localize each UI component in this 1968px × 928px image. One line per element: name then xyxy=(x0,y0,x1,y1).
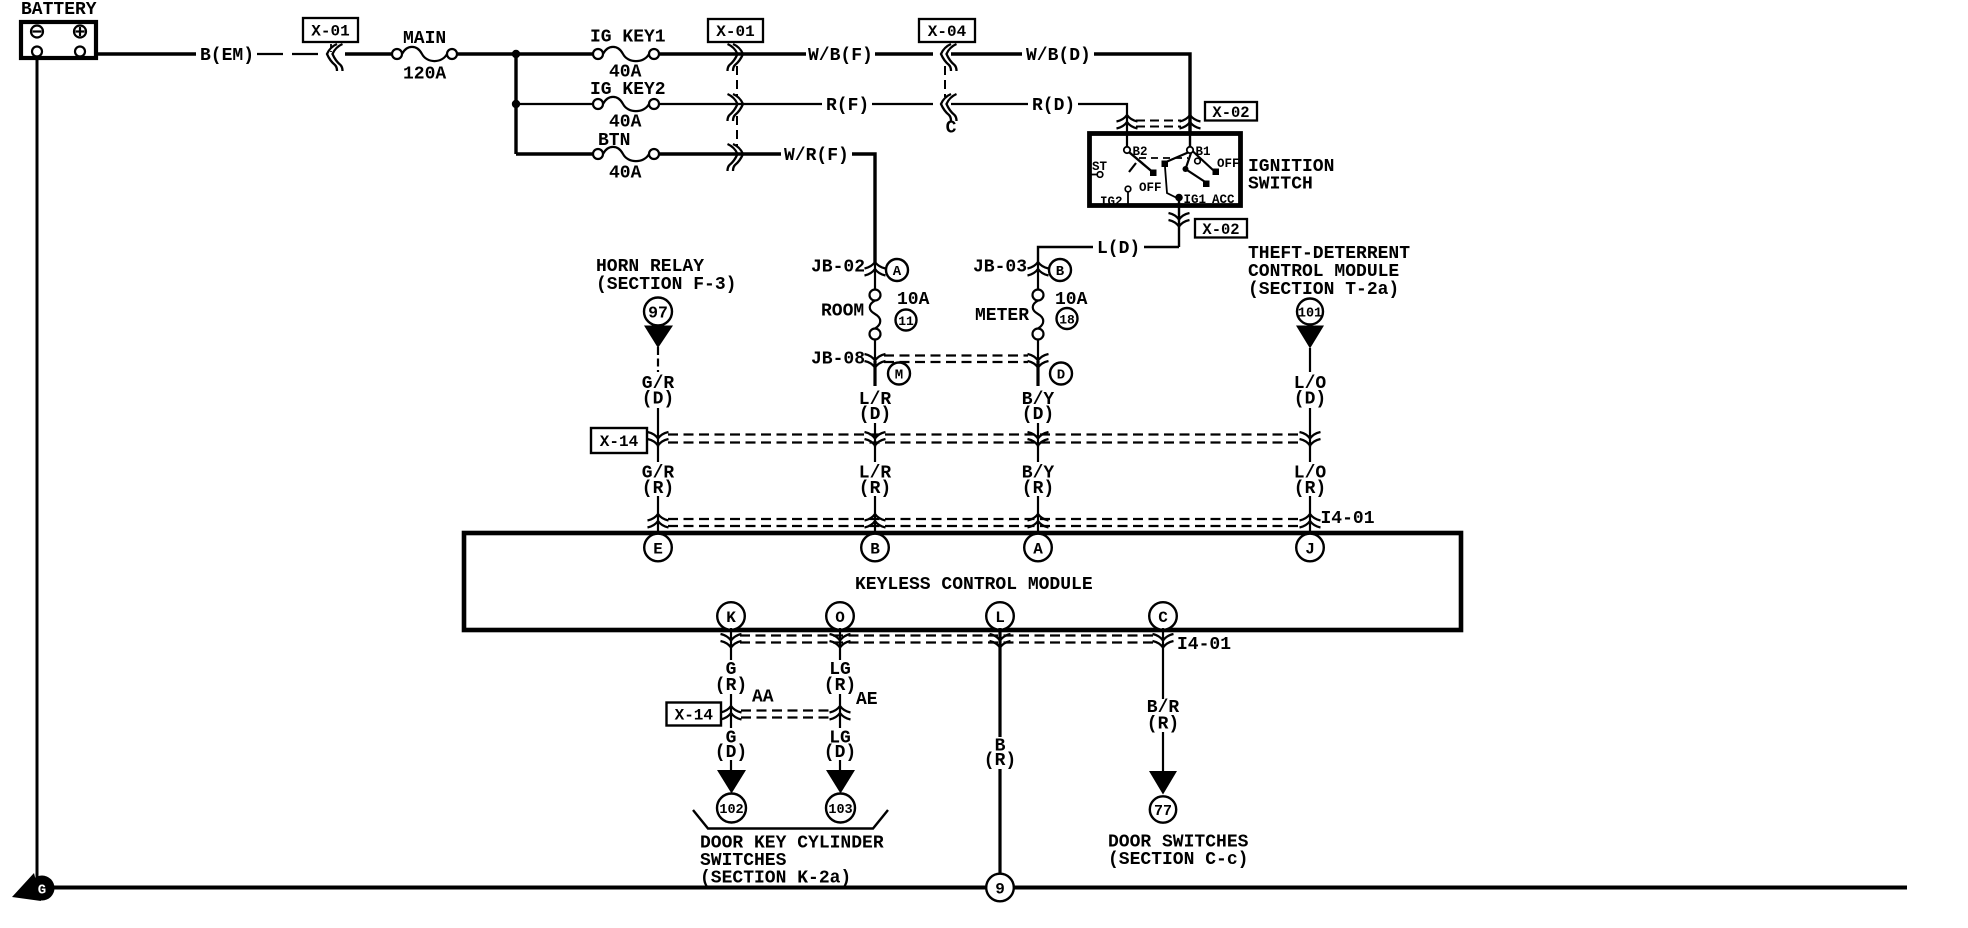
wire L/O (D) to X-14 xyxy=(1309,408,1311,447)
svg-text:X-14: X-14 xyxy=(675,707,714,725)
svg-text:(R): (R) xyxy=(984,751,1016,771)
connector X-14 xyxy=(591,428,1321,453)
svg-text:IG2: IG2 xyxy=(1100,195,1123,209)
connector X-01 (front harness) xyxy=(708,19,763,171)
wire B(EM) battery to connector xyxy=(97,52,196,55)
svg-text:X-01: X-01 xyxy=(311,23,349,41)
svg-text:(SECTION F-3): (SECTION F-3) xyxy=(596,275,736,295)
svg-text:O: O xyxy=(835,609,845,627)
door key cylinder switch reference 103 xyxy=(826,794,855,823)
svg-text:JB-03: JB-03 xyxy=(973,258,1027,278)
svg-text:W/R(F): W/R(F) xyxy=(784,146,849,166)
svg-text:KEYLESS CONTROL MODULE: KEYLESS CONTROL MODULE xyxy=(855,575,1093,595)
svg-text:THEFT-DETERRENT: THEFT-DETERRENT xyxy=(1248,244,1410,264)
svg-text:MAIN: MAIN xyxy=(403,29,446,49)
svg-text:R(D): R(D) xyxy=(1032,96,1075,116)
svg-text:X-02: X-02 xyxy=(1202,221,1239,239)
wire R(D) to ignition switch B2 xyxy=(1078,104,1127,147)
arrow to 102 xyxy=(717,770,746,794)
svg-text:(R): (R) xyxy=(1147,715,1179,735)
svg-text:IG1: IG1 xyxy=(1184,193,1207,207)
svg-text:(SECTION K-2a): (SECTION K-2a) xyxy=(700,869,851,889)
connector X-14 (lower) xyxy=(667,703,851,726)
wire G (D) down xyxy=(730,760,732,772)
wire pin C down xyxy=(1162,628,1164,699)
svg-text:(D): (D) xyxy=(642,390,674,410)
arrow to 77 xyxy=(1149,771,1177,795)
wire R(F) to X-04 xyxy=(872,103,933,105)
wire LG (R) to X-14 xyxy=(839,694,841,728)
wire B/Y (D) xyxy=(1036,361,1039,386)
pin B2 xyxy=(1124,147,1130,153)
pin C xyxy=(1149,602,1177,630)
svg-text:W/B(D): W/B(D) xyxy=(1026,46,1091,66)
theft-deterrent control module reference 101 xyxy=(1248,244,1410,325)
wire L/R (D) to X-14 xyxy=(874,423,876,447)
wire IG1 out of switch xyxy=(1178,208,1180,247)
wire L(D) horizontal run xyxy=(1144,246,1179,248)
svg-text:(D): (D) xyxy=(1294,390,1326,410)
svg-text:X-01: X-01 xyxy=(716,23,754,41)
wire L/R (R) to module pin B xyxy=(874,496,876,534)
fuse METER 10A xyxy=(975,290,1088,340)
svg-text:HORN RELAY: HORN RELAY xyxy=(596,257,704,277)
svg-text:D: D xyxy=(1057,368,1065,384)
svg-text:(D): (D) xyxy=(859,405,891,425)
wire L/O (R) xyxy=(1309,446,1311,462)
ignition switch xyxy=(1089,131,1241,209)
wire B/Y (R) xyxy=(1037,446,1039,462)
wire B/Y (D) to X-14 xyxy=(1037,423,1039,447)
arrow to G/R wire xyxy=(644,326,673,349)
connector X-01 (battery harness) xyxy=(303,18,358,71)
wire L/O (R) to module pin J xyxy=(1309,496,1311,534)
svg-text:IG KEY1: IG KEY1 xyxy=(590,28,666,48)
pin IG1 xyxy=(1175,194,1183,202)
connector X-02 (lower) xyxy=(1169,213,1248,239)
svg-text:B: B xyxy=(1056,264,1065,280)
connector I4-01 (upper) xyxy=(648,509,1375,529)
bracket door key cylinder switches xyxy=(693,810,888,829)
svg-text:X-02: X-02 xyxy=(1212,104,1249,122)
wire B(EM) label to X-01 xyxy=(257,53,325,55)
fuse BTN 40A xyxy=(593,131,659,184)
pin IG2 xyxy=(1125,186,1131,192)
wire battery negative to ground xyxy=(36,58,39,878)
wire pin K down xyxy=(730,628,732,660)
svg-text:40A: 40A xyxy=(609,164,642,184)
contact arm B1 to OFF xyxy=(1193,152,1213,171)
arrow to 103 xyxy=(826,770,855,794)
svg-text:ACC: ACC xyxy=(1212,193,1235,207)
fuse ROOM 10A xyxy=(821,290,930,340)
svg-text:(SECTION T-2a): (SECTION T-2a) xyxy=(1248,280,1399,300)
wire METER fuse to JB-08 xyxy=(1037,339,1039,362)
wire G (R) to X-14 xyxy=(730,694,732,728)
svg-text:OFF: OFF xyxy=(1217,157,1240,171)
wire W/R(F) corner down xyxy=(852,154,875,262)
pin J xyxy=(1296,534,1324,562)
contact arm B1 to ACC xyxy=(1186,153,1207,183)
junction block JB-03 xyxy=(973,258,1071,282)
svg-text:X-04: X-04 xyxy=(928,23,967,41)
fuse IG KEY2 40A xyxy=(590,80,666,133)
contact arm B2 xyxy=(1130,153,1153,172)
svg-text:G: G xyxy=(38,883,46,899)
junction block JB-08 xyxy=(811,350,1072,385)
fuse IG KEY1 40A xyxy=(590,28,666,83)
svg-text:IG KEY2: IG KEY2 xyxy=(590,80,666,100)
svg-text:ROOM: ROOM xyxy=(821,302,864,322)
fuse MAIN 120A xyxy=(392,29,457,85)
wire W/B(D) to ignition switch B1 xyxy=(1094,54,1190,133)
svg-text:BATTERY: BATTERY xyxy=(21,0,97,20)
svg-text:B(EM): B(EM) xyxy=(200,46,254,66)
wire MAIN fuse to bus junction xyxy=(457,52,593,55)
svg-text:I4-01: I4-01 xyxy=(1177,635,1231,655)
svg-text:40A: 40A xyxy=(609,113,642,133)
svg-text:101: 101 xyxy=(1298,307,1322,322)
svg-text:77: 77 xyxy=(1154,803,1172,820)
door key cylinder switch reference 102 xyxy=(717,794,746,823)
svg-text:11: 11 xyxy=(898,314,914,329)
svg-text:AA: AA xyxy=(752,688,774,708)
wire LG (D) down xyxy=(839,760,841,772)
wire G/R (D) to X-14 xyxy=(657,408,659,447)
svg-text:(R): (R) xyxy=(715,676,747,696)
svg-text:C: C xyxy=(946,119,957,139)
svg-text:J: J xyxy=(1305,541,1315,559)
svg-text:(R): (R) xyxy=(824,676,856,696)
wire W/B(F) to X-04 xyxy=(875,52,933,55)
junction node xyxy=(512,100,520,108)
wire JB-02 to ROOM fuse xyxy=(874,263,876,290)
wire X-04 to R(D) xyxy=(951,103,1028,105)
connector X-04 xyxy=(919,19,975,139)
label door switches xyxy=(1108,833,1249,871)
svg-text:18: 18 xyxy=(1059,313,1075,328)
wire bus to BTN fuse xyxy=(516,152,593,155)
svg-text:97: 97 xyxy=(648,304,668,323)
wire L(D) to JB-03 xyxy=(1038,247,1093,263)
wire row2 to X-01 xyxy=(659,103,822,105)
pin B1 xyxy=(1189,131,1191,147)
svg-text:(D): (D) xyxy=(1022,405,1054,425)
svg-text:JB-02: JB-02 xyxy=(811,258,865,278)
svg-text:10A: 10A xyxy=(1055,290,1088,310)
svg-text:103: 103 xyxy=(828,803,852,818)
svg-text:B: B xyxy=(870,541,880,559)
svg-text:JB-08: JB-08 xyxy=(811,350,865,370)
wire B/Y (R) to module pin A xyxy=(1037,496,1039,534)
svg-text:SWITCH: SWITCH xyxy=(1248,175,1313,195)
wire pin O down xyxy=(839,628,841,660)
wire B/R (R) down xyxy=(1162,732,1164,772)
svg-text:E: E xyxy=(653,541,663,559)
horn relay reference 97 xyxy=(596,257,736,326)
door switches reference 77 xyxy=(1150,796,1176,822)
connector X-02 (upper) xyxy=(1117,102,1258,129)
wire bus to IG KEY2 fuse xyxy=(516,103,593,105)
wire B (R) to ground node 9 xyxy=(998,769,1001,874)
svg-text:102: 102 xyxy=(719,803,743,818)
svg-text:CONTROL MODULE: CONTROL MODULE xyxy=(1248,262,1399,282)
svg-text:L: L xyxy=(995,609,1005,627)
svg-text:A: A xyxy=(893,264,902,280)
pin O xyxy=(826,602,854,630)
pin B xyxy=(861,534,889,562)
junction node xyxy=(512,50,520,58)
keyless control module U1 xyxy=(464,533,1461,630)
svg-text:M: M xyxy=(895,368,903,384)
wire L/R (R) xyxy=(874,446,876,462)
ground G xyxy=(12,873,55,901)
svg-text:METER: METER xyxy=(975,306,1029,326)
svg-text:AE: AE xyxy=(856,690,878,710)
wire row1 to X-01 xyxy=(659,52,806,55)
svg-text:I4-01: I4-01 xyxy=(1321,509,1375,529)
wire pin L down xyxy=(998,628,1001,737)
arrow to L/O wire xyxy=(1296,326,1324,349)
svg-text:A: A xyxy=(1033,541,1043,559)
junction block JB-02 xyxy=(811,258,908,282)
wire G/R (D) xyxy=(657,347,659,372)
label door key cylinder switches xyxy=(700,834,884,889)
wire IG1 to box edge xyxy=(1178,200,1180,208)
wire X-01 to MAIN fuse xyxy=(345,52,392,55)
svg-text:C: C xyxy=(1158,609,1168,627)
ground node 9 xyxy=(986,874,1014,902)
wire G/R (R) to module pin E xyxy=(657,496,659,534)
svg-text:R(F): R(F) xyxy=(826,96,869,116)
pin K xyxy=(717,602,745,630)
svg-text:OFF: OFF xyxy=(1139,181,1162,195)
pin E xyxy=(644,534,672,562)
switch dashed guide xyxy=(1139,157,1188,159)
wire vertical feed bus xyxy=(514,54,517,154)
wire L/R (D) xyxy=(873,361,876,386)
wire JB-03 to METER fuse xyxy=(1037,262,1039,290)
svg-text:X-14: X-14 xyxy=(600,433,639,451)
svg-text:K: K xyxy=(726,609,736,627)
ground bus wire xyxy=(52,886,1907,890)
contact arm B1 to IG1 xyxy=(1166,153,1188,163)
wire ROOM fuse to JB-08 xyxy=(874,339,876,362)
wire G/R (R) xyxy=(657,446,659,462)
pin L xyxy=(986,602,1014,630)
battery B xyxy=(21,0,97,58)
wire L/O (D) xyxy=(1309,348,1311,372)
wire X-04 to W/B(D) xyxy=(951,52,1022,55)
pin A xyxy=(1024,534,1052,562)
svg-text:(SECTION C-c): (SECTION C-c) xyxy=(1108,850,1248,870)
connector I4-01 (lower) xyxy=(721,634,1232,655)
svg-text:W/B(F): W/B(F) xyxy=(808,46,873,66)
svg-text:10A: 10A xyxy=(897,290,930,310)
svg-text:9: 9 xyxy=(995,881,1005,899)
svg-text:L(D): L(D) xyxy=(1097,239,1140,259)
svg-text:120A: 120A xyxy=(403,65,446,85)
wire row3 to X-01 xyxy=(659,152,781,155)
